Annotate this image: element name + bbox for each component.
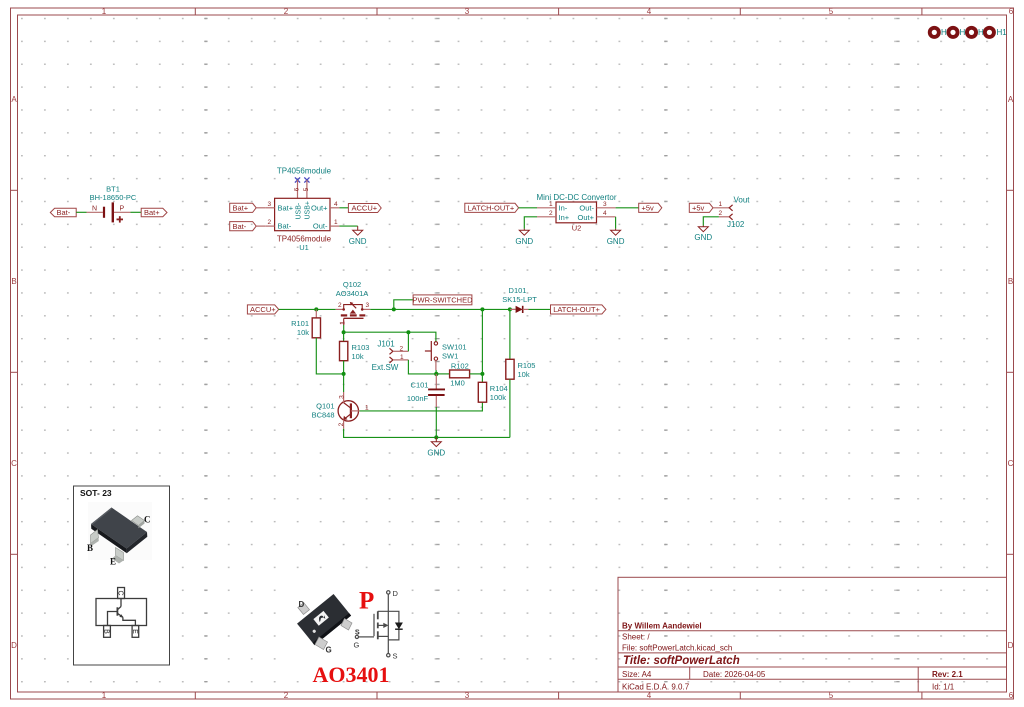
svg-text:2: 2 bbox=[549, 210, 553, 217]
svg-text:Bat-: Bat- bbox=[278, 222, 292, 231]
svg-text:E: E bbox=[131, 629, 138, 634]
package lead S bbox=[341, 619, 352, 631]
svg-text:2: 2 bbox=[268, 219, 272, 226]
pin 2 bbox=[729, 214, 732, 220]
wire Bat- to battery N bbox=[76, 211, 86, 213]
no-connect X pin 5 bbox=[304, 177, 309, 182]
pin 3 stub bbox=[597, 207, 616, 209]
svg-text:Rev: 2.1: Rev: 2.1 bbox=[932, 670, 963, 679]
svg-text:Bat-: Bat- bbox=[233, 222, 247, 231]
sot-23 pinout drawing bbox=[96, 588, 147, 638]
title block bbox=[618, 577, 1007, 692]
package lead G bbox=[315, 637, 328, 650]
node junction rail/R105 branch bbox=[508, 307, 512, 311]
svg-text:5: 5 bbox=[829, 7, 834, 16]
global label LATCH-OUT+ (to U2 pin 1) bbox=[465, 203, 519, 212]
wire +5v to J102 pin 1 bbox=[713, 207, 729, 209]
svg-text:U2: U2 bbox=[572, 224, 582, 233]
svg-text:3: 3 bbox=[465, 7, 470, 16]
svg-text:C: C bbox=[117, 590, 124, 595]
connector J102 bbox=[719, 196, 751, 230]
wire U1 pin 1 to GND bbox=[339, 225, 357, 227]
pin 2 stub bbox=[265, 225, 274, 227]
svg-text:A: A bbox=[11, 95, 17, 104]
svg-text:2: 2 bbox=[719, 210, 723, 217]
pin 2 emitter stub bbox=[343, 420, 345, 429]
svg-text:R101: R101 bbox=[291, 319, 309, 328]
node junction rail/R102R104 branch bbox=[480, 307, 484, 311]
svg-text:ACCU+: ACCU+ bbox=[352, 204, 378, 213]
svg-text:1: 1 bbox=[102, 691, 107, 700]
transistor Q101 BC848 bbox=[312, 392, 369, 429]
pin 4 stub bbox=[330, 207, 339, 209]
svg-text:D101: D101 bbox=[509, 286, 527, 295]
ground at U2 pin 2 bbox=[519, 229, 529, 236]
svg-text:6: 6 bbox=[1009, 691, 1014, 700]
ground at U1 pin 1 bbox=[353, 226, 363, 235]
svg-text:Date: 2026-04-05: Date: 2026-04-05 bbox=[703, 670, 766, 679]
resistor R105 bbox=[506, 309, 536, 379]
svg-text:R104: R104 bbox=[490, 384, 508, 393]
pin 1 bbox=[729, 205, 732, 211]
pin 3 collector stub bbox=[343, 392, 345, 403]
wire Q101 emitter to gnd rail bbox=[344, 429, 510, 438]
wire Q102 gate down to gate node bbox=[343, 325, 345, 332]
pin 4 stub bbox=[597, 216, 616, 218]
mounting hole H1 bbox=[983, 26, 996, 39]
global label Bat+ (to U1 pin 3) bbox=[230, 203, 257, 212]
node junction rail/PWR-SWITCHED tap bbox=[392, 307, 396, 311]
wire rail Q102 to D101 bbox=[370, 308, 515, 310]
pin 1 gate stub bbox=[343, 318, 345, 325]
U1 TP4056module bbox=[265, 167, 339, 253]
svg-text:Id: 1/1: Id: 1/1 bbox=[932, 683, 955, 692]
svg-text:3: 3 bbox=[465, 691, 470, 700]
svg-text:J102: J102 bbox=[727, 220, 745, 229]
svg-text:D: D bbox=[11, 641, 17, 650]
wire R102 to junction bbox=[470, 373, 483, 375]
no-connect X pin 6 bbox=[295, 177, 300, 182]
resistor R102 bbox=[450, 361, 470, 387]
svg-text:SW1: SW1 bbox=[442, 351, 458, 360]
svg-text:2: 2 bbox=[284, 691, 289, 700]
p-mosfet symbol bbox=[355, 591, 399, 657]
wire C101 bottom to gnd rail bbox=[435, 396, 437, 407]
global label Bat- (left) bbox=[50, 208, 76, 217]
transistor Q102 AO3401A bbox=[336, 280, 371, 325]
svg-text:6: 6 bbox=[294, 187, 301, 191]
svg-text:Out-: Out- bbox=[579, 203, 594, 212]
svg-text:1: 1 bbox=[339, 321, 346, 325]
svg-text:10k: 10k bbox=[297, 328, 309, 337]
svg-text:2: 2 bbox=[338, 422, 345, 426]
wire node to R102 bbox=[436, 373, 449, 375]
lead E bbox=[116, 548, 124, 561]
svg-text:U1: U1 bbox=[299, 243, 309, 252]
resistor R103 bbox=[340, 332, 370, 361]
svg-text:BC848: BC848 bbox=[312, 410, 335, 419]
svg-text:B: B bbox=[87, 543, 93, 553]
svg-text:Bat+: Bat+ bbox=[233, 204, 249, 213]
pin 1 stub bbox=[330, 225, 339, 227]
node junction gnd rail bbox=[434, 435, 438, 439]
wire LATCH-OUT+ to U2 pin 1 bbox=[519, 207, 537, 209]
node junction R102/R104/rail branch bbox=[480, 372, 484, 376]
svg-text:R102: R102 bbox=[451, 361, 469, 370]
svg-text:R103: R103 bbox=[352, 343, 370, 352]
node junction rail/R101 bbox=[314, 307, 318, 311]
svg-text:2: 2 bbox=[284, 7, 289, 16]
wire D101 to LATCH-OUT+ bbox=[529, 308, 551, 310]
svg-text:D: D bbox=[393, 589, 399, 598]
wire SW101 bottom to node bbox=[435, 370, 437, 374]
mounting hole H2 bbox=[965, 26, 978, 39]
wire battery P to Bat+ bbox=[131, 211, 142, 213]
ao3401 package body bbox=[297, 594, 351, 645]
svg-text:6: 6 bbox=[1009, 7, 1014, 16]
svg-text:Bat+: Bat+ bbox=[144, 208, 160, 217]
svg-text:5: 5 bbox=[303, 187, 310, 191]
svg-text:100nF: 100nF bbox=[407, 394, 429, 403]
global label ACCU+ (latch input) bbox=[247, 305, 278, 314]
svg-text:USB-: USB- bbox=[295, 202, 302, 219]
global label +5v (to J102) bbox=[689, 203, 713, 212]
pin 5 stub bbox=[306, 180, 308, 198]
svg-text:Q101: Q101 bbox=[316, 401, 334, 410]
global label +5v (U2 out) bbox=[639, 203, 662, 212]
svg-text:1: 1 bbox=[334, 219, 338, 226]
capacitor C101 bbox=[407, 374, 445, 403]
svg-text:1: 1 bbox=[719, 201, 723, 208]
svg-text:3: 3 bbox=[603, 201, 607, 208]
mounting hole H4 bbox=[928, 26, 941, 39]
svg-text:Q102: Q102 bbox=[343, 280, 361, 289]
svg-text:Bat-: Bat- bbox=[57, 208, 71, 217]
svg-text:+5v: +5v bbox=[642, 204, 655, 213]
diode D101 SK15-LPT bbox=[502, 286, 537, 313]
svg-text:SOT- 23: SOT- 23 bbox=[80, 488, 112, 498]
svg-text:PWR-SWITCHED: PWR-SWITCHED bbox=[413, 296, 474, 305]
svg-text:AO3401: AO3401 bbox=[313, 662, 390, 687]
resistor R104 bbox=[478, 374, 507, 402]
svg-text:SK15-LPT: SK15-LPT bbox=[502, 295, 537, 304]
pin 2 stub bbox=[336, 308, 344, 310]
wire U2 pin 3 to +5v bbox=[616, 207, 639, 209]
svg-text:10k: 10k bbox=[518, 370, 530, 379]
svg-text:1M0: 1M0 bbox=[450, 379, 465, 388]
U2 Mini DC-DC Convertor bbox=[536, 193, 616, 233]
lead B bbox=[91, 530, 99, 544]
svg-text:B: B bbox=[103, 629, 110, 634]
global label ACCU+ (U1 out) bbox=[348, 204, 381, 213]
global label LATCH-OUT+ (latch out) bbox=[551, 305, 606, 314]
svg-text:S: S bbox=[355, 629, 360, 636]
pin 3 stub bbox=[362, 308, 370, 310]
svg-text:Out+: Out+ bbox=[311, 204, 328, 213]
svg-text:In-: In- bbox=[559, 203, 568, 212]
wire Bat- label to pin 2 bbox=[256, 225, 265, 227]
svg-text:Title: softPowerLatch: Title: softPowerLatch bbox=[623, 655, 740, 667]
resistor R101 bbox=[291, 309, 320, 337]
svg-text:3: 3 bbox=[366, 302, 370, 309]
svg-text:GND: GND bbox=[694, 233, 712, 242]
wire gate node to SW101 top bbox=[344, 332, 436, 341]
svg-text:LATCH-OUT+: LATCH-OUT+ bbox=[553, 305, 600, 314]
wire R105 bottom to gnd rail bbox=[509, 379, 511, 437]
svg-text:In+: In+ bbox=[559, 213, 570, 222]
svg-text:TP4056module: TP4056module bbox=[277, 167, 332, 176]
node junction gate/R103 bbox=[342, 330, 346, 334]
svg-text:GND: GND bbox=[515, 237, 533, 246]
svg-text:Vout: Vout bbox=[734, 196, 751, 205]
svg-text:A: A bbox=[1008, 95, 1014, 104]
switch SW101 SW1 bbox=[425, 341, 467, 370]
pin 1 stub bbox=[537, 207, 556, 209]
package lead D bbox=[298, 603, 310, 615]
node junction gate/J101 pin2 branch bbox=[406, 330, 410, 334]
battery BT1 pin P stub bbox=[114, 211, 131, 213]
svg-text:Ext.SW: Ext.SW bbox=[372, 363, 399, 372]
global label Bat- (to U1 pin 2) bbox=[230, 222, 257, 231]
wire J102 pin 2 to GND bbox=[719, 216, 729, 218]
connector J101 bbox=[372, 339, 404, 372]
svg-text:+5v: +5v bbox=[692, 204, 705, 213]
pin 1 bbox=[390, 357, 393, 363]
global label Bat+ (right of battery) bbox=[141, 208, 167, 217]
svg-text:SW101: SW101 bbox=[442, 342, 467, 351]
mounting hole labels H4 H3 H2 H1 bbox=[941, 28, 1007, 37]
npn symbol inside bbox=[120, 599, 122, 607]
svg-text:4: 4 bbox=[603, 210, 607, 217]
svg-text:BH-18650-PC: BH-18650-PC bbox=[90, 193, 137, 202]
svg-text:File: softPowerLatch.kicad_sch: File: softPowerLatch.kicad_sch bbox=[622, 644, 732, 653]
svg-text:Out-: Out- bbox=[313, 222, 328, 231]
battery BT1 bbox=[90, 184, 137, 222]
wire junction up to power rail bbox=[481, 309, 483, 374]
svg-text:4: 4 bbox=[334, 201, 338, 208]
svg-text:3: 3 bbox=[339, 395, 346, 399]
svg-text:USB+: USB+ bbox=[305, 201, 312, 219]
svg-text:P: P bbox=[120, 206, 125, 213]
svg-text:N: N bbox=[92, 206, 97, 213]
wire J101 pin1 to sw net bbox=[393, 359, 409, 361]
wire Q101 base to R104 bbox=[360, 402, 483, 411]
pin 2 stub bbox=[537, 216, 556, 218]
pin 1 base stub bbox=[351, 410, 360, 412]
svg-text:C: C bbox=[11, 459, 17, 468]
svg-text:C101: C101 bbox=[411, 380, 429, 389]
lead C bbox=[132, 516, 145, 526]
battery BT1 pin N stub bbox=[87, 211, 103, 213]
svg-text:GND: GND bbox=[349, 237, 367, 246]
wire R101 bottom to left node bbox=[316, 338, 343, 374]
svg-text:100k: 100k bbox=[490, 393, 507, 402]
svg-text:3: 3 bbox=[268, 201, 272, 208]
label PWR-SWITCHED bbox=[413, 295, 474, 305]
U1 body bbox=[275, 198, 330, 230]
pin 2 bbox=[390, 348, 393, 354]
svg-text:GND: GND bbox=[427, 449, 445, 458]
svg-text:D: D bbox=[299, 600, 305, 609]
svg-text:ACCU+: ACCU+ bbox=[250, 305, 276, 314]
wire R103 bottom to node bbox=[343, 361, 345, 374]
svg-text:1: 1 bbox=[102, 7, 107, 16]
svg-text:GND: GND bbox=[607, 237, 625, 246]
svg-text:H1: H1 bbox=[997, 28, 1008, 37]
svg-text:LATCH-OUT+: LATCH-OUT+ bbox=[468, 204, 515, 213]
wire node down to Q101 collector bbox=[343, 374, 345, 392]
wire Bat+ label to pin 3 bbox=[256, 207, 265, 209]
pin 6 stub bbox=[297, 180, 299, 198]
svg-text:4: 4 bbox=[647, 7, 652, 16]
svg-text:1: 1 bbox=[549, 201, 553, 208]
svg-text:J101: J101 bbox=[377, 339, 395, 348]
svg-text:B: B bbox=[1008, 277, 1013, 286]
svg-text:R105: R105 bbox=[518, 361, 536, 370]
ground at gnd rail bbox=[431, 437, 441, 446]
ground at U2 pin 4 bbox=[611, 229, 621, 236]
svg-text:C: C bbox=[1008, 459, 1014, 468]
svg-text:D: D bbox=[1008, 641, 1014, 650]
wire ACCU+ rail to Q102 bbox=[279, 308, 336, 310]
node junction SW/C101/R102 bbox=[434, 372, 438, 376]
svg-text:P: P bbox=[359, 588, 374, 615]
svg-text:E: E bbox=[110, 557, 116, 567]
sot-23 3d body bbox=[87, 502, 152, 567]
wire U1 pin 4 to ACCU+ bbox=[339, 207, 348, 209]
svg-text:Out+: Out+ bbox=[578, 213, 595, 222]
svg-text:G: G bbox=[354, 641, 360, 650]
svg-text:2: 2 bbox=[338, 302, 342, 309]
svg-text:Bat+: Bat+ bbox=[278, 204, 294, 213]
svg-text:Sheet: /: Sheet: / bbox=[622, 633, 650, 642]
wire U2 pin 2 to GND bbox=[524, 217, 537, 229]
svg-text:G: G bbox=[326, 646, 332, 655]
svg-text:Size: A4: Size: A4 bbox=[622, 670, 652, 679]
svg-text:C: C bbox=[144, 515, 151, 525]
ground at J102 pin 2 bbox=[698, 226, 708, 232]
node junction R101/R103/Q101 bbox=[342, 372, 346, 376]
wire PWR-SWITCHED tap bbox=[394, 300, 413, 310]
wire J101 pin2 to gate net bbox=[393, 350, 409, 352]
svg-text:AO3401A: AO3401A bbox=[336, 289, 369, 298]
mounting hole H3 bbox=[947, 26, 960, 39]
wire U2 pin 4 to GND bbox=[615, 217, 617, 229]
svg-text:10k: 10k bbox=[352, 352, 364, 361]
svg-text:S: S bbox=[393, 651, 398, 660]
sw bottom stub bbox=[435, 360, 437, 370]
pin 3 stub bbox=[265, 207, 274, 209]
svg-text:By Willem Aandewiel: By Willem Aandewiel bbox=[622, 621, 702, 630]
svg-text:KiCad E.D.A. 9.0.7: KiCad E.D.A. 9.0.7 bbox=[622, 683, 690, 692]
svg-text:B: B bbox=[11, 277, 16, 286]
emitter with arrow bbox=[344, 414, 351, 420]
